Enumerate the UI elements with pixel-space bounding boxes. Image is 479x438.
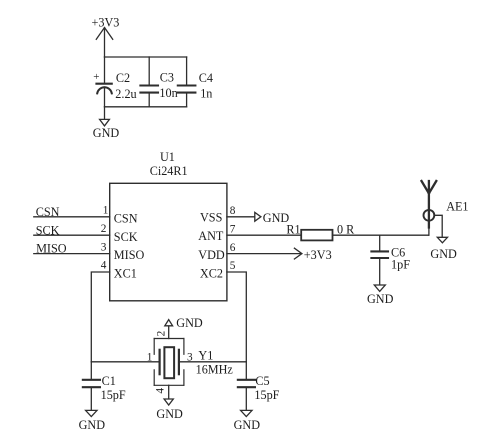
wire pin 8 [227, 216, 255, 218]
svg-text:GND: GND [156, 407, 183, 421]
ground (antenna) [430, 237, 457, 261]
svg-text:0 R: 0 R [337, 222, 355, 236]
svg-text:2.2u: 2.2u [115, 87, 136, 101]
svg-text:1: 1 [103, 205, 109, 217]
wire crystal net left [91, 361, 159, 363]
svg-text:15pF: 15pF [101, 388, 126, 402]
svg-text:16MHz: 16MHz [196, 363, 234, 377]
svg-text:2: 2 [155, 330, 167, 336]
svg-text:GND: GND [79, 418, 106, 432]
svg-text:SCK: SCK [114, 230, 138, 244]
ground (below C1) [79, 410, 106, 432]
wire bottom bus [105, 106, 187, 108]
wire resistor to antenna [333, 234, 429, 236]
svg-text:1: 1 [147, 351, 153, 363]
svg-text:10n: 10n [159, 86, 177, 100]
wire pin 5 (XC2) [227, 272, 246, 362]
svg-text:C5: C5 [255, 374, 269, 388]
svg-text:XC1: XC1 [114, 267, 137, 281]
svg-text:C4: C4 [199, 71, 213, 85]
crystal Y1 [147, 339, 234, 386]
svg-text:MISO: MISO [114, 248, 145, 262]
pin 2 of Y1 (top) [168, 326, 170, 339]
capacitor C3 [140, 57, 177, 107]
svg-text:Ci24R1: Ci24R1 [150, 164, 188, 178]
wire crystal net right [179, 361, 246, 363]
svg-text:7: 7 [230, 223, 236, 235]
ground (crystal top) [165, 316, 203, 330]
wire pin 2 [34, 234, 110, 236]
svg-text:15pF: 15pF [254, 388, 279, 402]
svg-text:R1: R1 [286, 223, 300, 237]
svg-text:U1: U1 [160, 150, 175, 164]
svg-text:VSS: VSS [200, 211, 223, 225]
svg-text:2: 2 [101, 223, 107, 235]
svg-text:4: 4 [154, 388, 166, 394]
svg-text:C1: C1 [102, 374, 116, 388]
svg-text:GND: GND [234, 418, 261, 432]
svg-text:5: 5 [230, 260, 236, 272]
svg-text:1n: 1n [200, 87, 212, 101]
capacitor C5 [238, 362, 280, 410]
antenna AE1 [422, 181, 469, 235]
svg-text:6: 6 [230, 242, 236, 254]
svg-text:AE1: AE1 [446, 200, 468, 214]
svg-text:ANT: ANT [198, 229, 224, 243]
wire top bus [105, 56, 187, 58]
ground (crystal bottom) [156, 399, 183, 421]
wire pin 6 [227, 253, 302, 255]
svg-text:+: + [93, 71, 99, 83]
svg-text:XC2: XC2 [200, 267, 223, 281]
wire antenna to ground [434, 215, 442, 237]
capacitor C2 [93, 57, 136, 107]
svg-text:GND: GND [176, 316, 203, 330]
svg-text:VDD: VDD [198, 248, 225, 262]
svg-text:CSN: CSN [114, 211, 138, 225]
capacitor C4 [178, 57, 213, 107]
wire pin 7 to resistor [227, 234, 301, 236]
wire pin 1 [34, 216, 110, 218]
svg-text:1pF: 1pF [391, 257, 410, 271]
svg-text:4: 4 [101, 260, 107, 272]
svg-text:GND: GND [367, 292, 394, 306]
power +3V3 (pin 6 arrow) [294, 248, 331, 262]
port GND (pin 8) [255, 211, 290, 225]
wire pin 4 (XC1) [91, 272, 109, 362]
power +3V3 (top) [92, 15, 120, 57]
svg-text:+3V3: +3V3 [92, 15, 120, 29]
svg-text:C2: C2 [116, 71, 130, 85]
svg-text:3: 3 [187, 351, 193, 363]
resistor R1 [286, 222, 355, 240]
svg-text:+3V3: +3V3 [304, 248, 332, 262]
ground (below C5) [234, 410, 261, 432]
wire pin 3 [34, 253, 110, 255]
ground (below C6) [367, 285, 394, 306]
capacitor C6 [371, 235, 410, 285]
svg-text:8: 8 [230, 205, 236, 217]
svg-text:GND: GND [93, 126, 120, 140]
svg-text:GND: GND [430, 247, 457, 261]
svg-text:Y1: Y1 [198, 349, 213, 363]
svg-text:3: 3 [101, 241, 107, 253]
capacitor C1 [83, 362, 126, 410]
ground (below C2) [93, 107, 120, 140]
op-amp U1 / IC Ci24R1 [110, 150, 227, 301]
pin 4 of Y1 (bottom) [168, 385, 170, 399]
svg-text:C3: C3 [160, 70, 174, 84]
